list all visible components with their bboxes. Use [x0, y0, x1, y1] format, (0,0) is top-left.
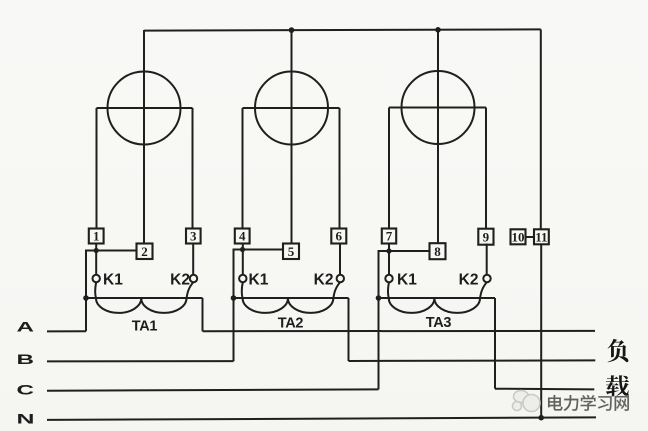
- svg-text:A: A: [17, 319, 35, 335]
- svg-text:TA2: TA2: [278, 316, 304, 332]
- terminal box 2: [137, 244, 153, 260]
- svg-text:C: C: [17, 381, 35, 397]
- wire: U2 current lead right to terminal 6: [339, 108, 341, 229]
- TA2 secondary winding (humps): [242, 282, 341, 313]
- terminal K2 of TA1: [190, 275, 197, 282]
- meter element U1: current-coil horizontal line: [97, 107, 193, 109]
- wire: terminal 11 down to neutral line: [540, 244, 542, 417]
- wire: phase B from source: [47, 360, 234, 362]
- wire: U2 current lead left to terminal 4: [242, 108, 244, 229]
- terminal box 1: [89, 229, 104, 244]
- meter element U3: measuring circle: [402, 71, 475, 144]
- wire: phase B to load: [349, 359, 596, 362]
- svg-text:8: 8: [434, 244, 441, 259]
- TA3 primary conductor: [379, 297, 496, 299]
- wire: U2 voltage lead from bus through circle to terminal 5: [291, 30, 293, 244]
- node: bus junction element 3: [435, 27, 441, 33]
- wire: phase A from source: [47, 330, 86, 332]
- terminal box 6: [331, 229, 346, 244]
- svg-text:TA3: TA3: [426, 315, 452, 331]
- svg-text:K2: K2: [459, 271, 479, 288]
- wire: phase C to load: [495, 388, 594, 391]
- TA2 primary conductor: [234, 297, 349, 299]
- wire: U1 voltage lead from bus through circle to terminal 2: [143, 30, 145, 244]
- wire: TA2 primary output drop: [348, 298, 350, 361]
- wire: bus drop to terminal 11: [540, 29, 542, 229]
- svg-text:3: 3: [190, 229, 197, 244]
- svg-text:4: 4: [239, 229, 246, 244]
- wire: neutral N line: [47, 417, 596, 420]
- watermark icon: [513, 391, 541, 412]
- svg-text:K2: K2: [170, 272, 190, 289]
- terminal K1 of TA3: [385, 275, 392, 282]
- wire: TA3 primary output drop: [494, 298, 496, 389]
- TA1 secondary winding (humps): [95, 282, 193, 313]
- terminal box 10: [511, 229, 526, 244]
- node: tap crossing dot: [386, 248, 391, 253]
- node: tap crossing dot: [240, 247, 245, 252]
- terminal K1 of TA2: [239, 275, 246, 282]
- svg-text:N: N: [17, 411, 35, 427]
- TA1 primary conductor: [86, 297, 203, 299]
- wire: terminal to K2 of TA2: [339, 244, 341, 275]
- svg-text:5: 5: [288, 244, 295, 259]
- node: tap crossing dot: [94, 248, 99, 253]
- wire: U3 current lead left to terminal 7: [388, 108, 390, 229]
- wire: terminal to K1 of TA2: [242, 244, 244, 275]
- svg-text:1: 1: [93, 229, 100, 244]
- wire: terminal to K2 of TA1: [192, 244, 194, 275]
- svg-text:11: 11: [535, 229, 547, 244]
- label load char 负: [608, 339, 629, 362]
- wire: voltage tap from terminal box to primary of TA1: [86, 251, 137, 332]
- svg-text:9: 9: [483, 229, 490, 244]
- svg-text:K1: K1: [103, 272, 123, 289]
- wire: terminal to K1 of TA3: [388, 244, 390, 275]
- TA3 secondary winding (humps): [388, 282, 487, 313]
- wire: voltage tap from terminal box to primary of TA2: [234, 250, 284, 362]
- svg-text:7: 7: [386, 229, 393, 244]
- wire: U3 current lead right to terminal 9: [485, 108, 487, 229]
- terminal box 4: [235, 229, 250, 244]
- terminal K1 of TA1: [93, 275, 100, 282]
- wire: voltage tap from terminal box to primary of TA3: [379, 251, 430, 389]
- svg-text:6: 6: [336, 229, 343, 244]
- svg-text:B: B: [17, 351, 35, 367]
- wire: TA1 primary output drop: [202, 298, 204, 331]
- svg-text:K1: K1: [397, 271, 417, 288]
- svg-text:2: 2: [141, 244, 148, 259]
- node: primary junction of TA3: [376, 295, 382, 301]
- wire: link terminal 10 to terminal 11: [526, 236, 535, 238]
- meter element U2: current-coil horizontal line: [243, 107, 340, 109]
- node: primary junction of TA2: [231, 295, 237, 301]
- terminal box 9: [478, 229, 493, 245]
- svg-text:10: 10: [512, 229, 525, 244]
- node: bus junction element 2: [289, 27, 295, 33]
- svg-text:K1: K1: [249, 272, 269, 289]
- wire: U1 current lead left to terminal 1: [96, 108, 98, 229]
- wire: phase A to load: [203, 330, 596, 332]
- svg-text:TA1: TA1: [132, 319, 158, 335]
- terminal box 7: [382, 229, 396, 244]
- terminal box 3: [186, 229, 201, 244]
- wire: terminal to K2 of TA3: [486, 244, 488, 275]
- svg-text:K2: K2: [314, 272, 334, 289]
- wire: U1 current lead right to terminal 3: [192, 108, 194, 229]
- terminal box 11: [534, 229, 549, 244]
- terminal box 5: [283, 244, 299, 260]
- meter element U1: measuring circle: [108, 72, 181, 145]
- meter element U3: current-coil horizontal line: [389, 107, 486, 109]
- terminal box 8: [430, 243, 446, 259]
- wire: phase C from source: [47, 389, 379, 390]
- wire: voltage-coil common bus (top): [144, 29, 541, 30]
- terminal K2 of TA2: [337, 275, 344, 282]
- label load char 载: [606, 375, 629, 396]
- wire: U3 voltage lead from bus through circle to terminal 8: [437, 30, 439, 243]
- node: primary junction of TA1: [83, 295, 89, 301]
- node: junction on N line: [538, 415, 544, 421]
- meter element U2: measuring circle: [255, 72, 328, 145]
- watermark text: [548, 395, 629, 411]
- terminal K2 of TA3: [483, 275, 490, 282]
- wire: terminal to K1 of TA1: [95, 244, 97, 275]
